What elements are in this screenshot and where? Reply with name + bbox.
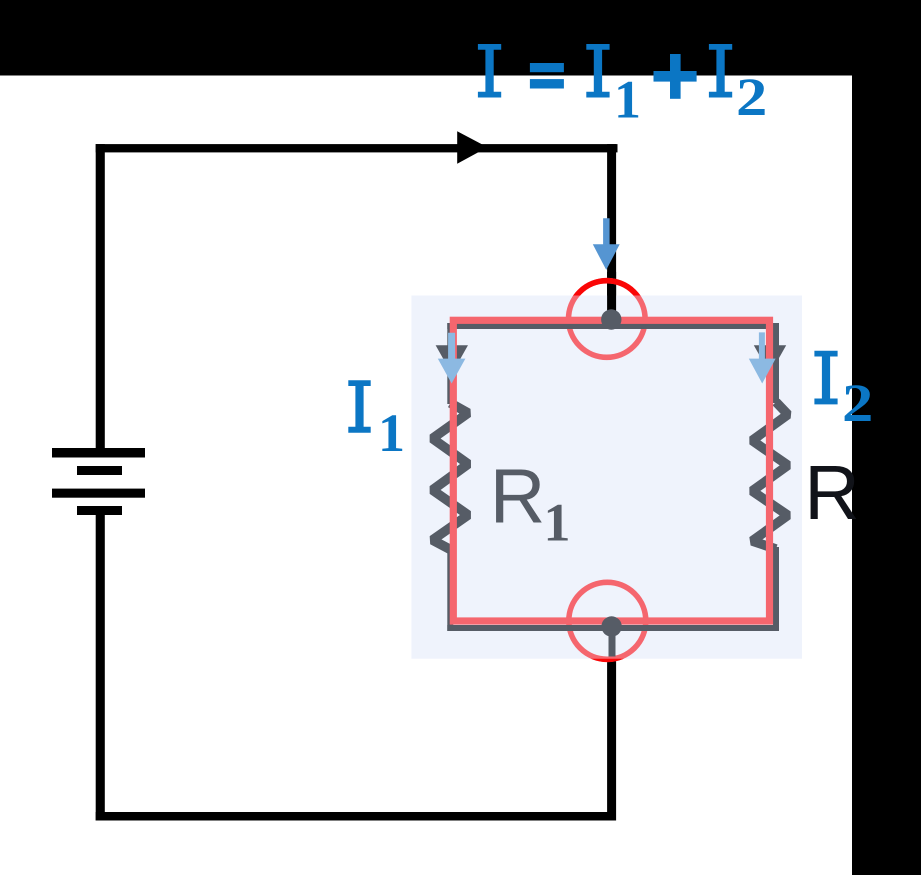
gray left branch vertical wire top segment [447, 323, 453, 404]
battery B1 plate short upper [77, 466, 122, 475]
resistor R2 zigzag [752, 402, 788, 549]
wire stub black through top circle into node A [607, 272, 616, 314]
label I2 current [814, 351, 873, 433]
svg-text:R: R [804, 450, 860, 536]
wire right vertical lower (node B down to bottom corner) [607, 630, 616, 821]
node A junction dot [601, 309, 621, 329]
right black bar [852, 0, 921, 875]
wire top horizontal [96, 144, 618, 152]
top black bar [0, 0, 921, 76]
equals sign [530, 63, 564, 72]
label I1 current [348, 380, 405, 463]
wire left vertical upper (to battery) [96, 144, 105, 448]
svg-text:2: 2 [736, 67, 767, 127]
battery B1 plate long top [52, 448, 145, 458]
wire left vertical lower (battery to bottom) [96, 515, 105, 821]
light blue arrow current I1 [438, 333, 466, 384]
wire bottom horizontal [96, 812, 616, 821]
red loop highlight rectangle [453, 320, 769, 621]
gray arrowhead shadow left branch [436, 345, 468, 374]
label R1 resistor [490, 454, 571, 553]
svg-text:1: 1 [378, 403, 405, 463]
label I (total) [478, 44, 501, 98]
battery B1 plate long lower [52, 489, 145, 498]
highlight panel over parallel section [411, 296, 802, 659]
node B junction dot [601, 616, 621, 636]
node circle top bright arc outside panel [569, 281, 646, 358]
plus sign [670, 54, 681, 99]
label I2 in equation [709, 44, 732, 98]
node circle highlight bottom (salmon, inside panel) [569, 582, 646, 659]
gray parallel circuit top wire [447, 323, 778, 329]
label equation I = I1 + I2 [478, 44, 767, 130]
gray right branch vertical wire bottom segment [773, 547, 779, 631]
svg-text:1: 1 [544, 492, 571, 552]
battery B1 plate short bottom [77, 506, 122, 515]
svg-text:1: 1 [614, 70, 641, 130]
arrowhead on top wire (current I direction) [457, 131, 487, 164]
label I1 in equation [586, 44, 609, 98]
gray stub from node B to panel bottom [609, 624, 616, 657]
gray right branch vertical wire top segment [773, 323, 779, 403]
blue arrow current I (into node A) [593, 218, 620, 270]
gray left branch vertical wire bottom segment [447, 548, 453, 631]
node circle bottom bright arc outside panel [569, 582, 646, 659]
svg-text:R: R [490, 454, 546, 540]
wire right vertical upper (top corner down to node A) [607, 144, 616, 314]
light blue arrow current I2 [749, 332, 776, 383]
resistor R1 zigzag [432, 403, 468, 550]
gray arrowhead shadow right branch [754, 345, 786, 374]
gray parallel circuit bottom wire [447, 625, 778, 631]
node circle highlight top (salmon, inside panel) [569, 281, 646, 358]
svg-text:2: 2 [842, 373, 873, 433]
